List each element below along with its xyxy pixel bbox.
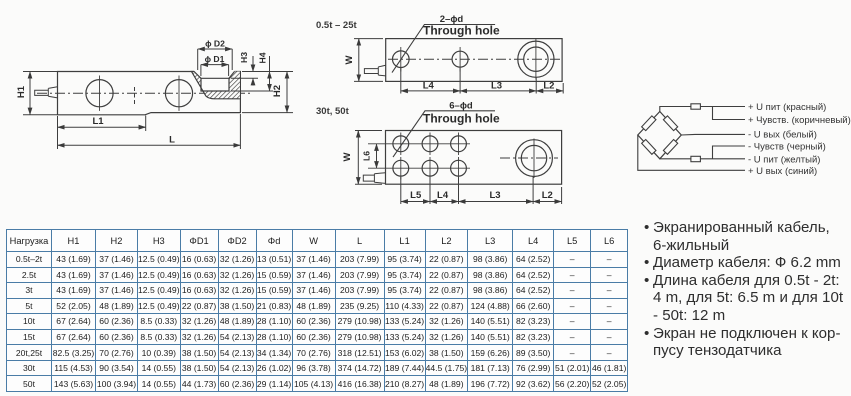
top view 2 leader: [393, 111, 495, 157]
svg-text:- Чувств (черный): - Чувств (черный): [748, 142, 826, 153]
side view hole 1: [86, 80, 113, 107]
svg-text:L4: L4: [437, 190, 449, 201]
wire +U pit: [660, 107, 745, 112]
resistor top: [691, 104, 701, 109]
svg-text:L4: L4: [423, 81, 435, 92]
dim H1: [23, 72, 57, 115]
wire +U vyh: [638, 135, 745, 170]
svg-text:+ Чувств. (коричневый): + Чувств. (коричневый): [748, 115, 851, 126]
counterbore cavity: [201, 78, 229, 91]
svg-text:L6: L6: [362, 151, 372, 161]
dim H2: [242, 72, 293, 113]
top view 2 holes row2: [393, 160, 409, 176]
svg-text:- U вых (белый): - U вых (белый): [748, 130, 817, 141]
side view hidden dash line: [134, 87, 136, 106]
svg-text:Through hole: Through hole: [423, 24, 500, 38]
svg-text:W: W: [344, 55, 355, 64]
wire -U vyh: [681, 133, 745, 136]
strain gauge R2 top-right: [663, 116, 677, 131]
dimensions table: [6, 229, 628, 392]
top view 1 dims L4 L3 L2: [401, 68, 563, 94]
counterbore hatch section: [192, 72, 240, 99]
svg-text:ϕ D2: ϕ D2: [205, 39, 225, 49]
top view 1 cable stub: [364, 65, 385, 76]
svg-text:H4: H4: [258, 52, 268, 63]
dim L1: [58, 116, 146, 132]
top view 2 dim L6: [376, 144, 378, 168]
svg-text:W: W: [342, 152, 353, 161]
top view 2 hole ticks: [368, 133, 470, 180]
strain gauge R4 bottom-right: [663, 140, 677, 155]
notes bullet list: [644, 219, 851, 360]
dim phiD2: [198, 49, 233, 70]
svg-text:0.5t – 25t: 0.5t – 25t: [316, 20, 357, 31]
wheatstone bridge diamond: [638, 112, 682, 159]
svg-text:H3: H3: [239, 52, 249, 63]
side view body outline: [58, 72, 241, 115]
top view 1 centerline: [388, 58, 560, 60]
svg-text:H2: H2: [272, 85, 283, 97]
side view hole 2: [165, 80, 192, 107]
top view 1 big hole: [518, 41, 554, 77]
svg-text:L2: L2: [543, 81, 554, 92]
svg-text:+ U вых (синий): + U вых (синий): [748, 166, 817, 177]
strain gauge R1 top-left: [642, 116, 656, 131]
svg-text:ϕ D1: ϕ D1: [205, 54, 225, 64]
svg-text:- U пит (желтый): - U пит (желтый): [748, 155, 820, 166]
svg-text:30t, 50t: 30t, 50t: [316, 106, 350, 117]
top view 1 body: [386, 39, 562, 82]
top view 2 centerline: [500, 157, 558, 159]
dim L: [58, 114, 241, 149]
wire +Chuvstv: [713, 107, 746, 120]
top view 2 dim W: [355, 131, 382, 185]
side view centerline: [37, 92, 252, 94]
resistor bottom: [691, 156, 701, 161]
dim phiD1: [201, 65, 229, 76]
top view 2 cable stub: [363, 173, 385, 184]
top view 1 hole B: [452, 51, 468, 67]
counterbore outline: [192, 72, 240, 99]
strain gauge R3 bottom-left: [642, 140, 656, 155]
svg-text:L3: L3: [489, 190, 500, 201]
top view 2 holes row1: [393, 136, 409, 152]
top view 2 big hole: [516, 140, 553, 177]
dim H3: [231, 56, 258, 86]
svg-text:L2: L2: [542, 190, 553, 201]
top view 2 dims L5 L4 L3 L2: [401, 176, 562, 204]
top view 1 leader: [392, 25, 495, 73]
top view 2 body: [386, 131, 562, 185]
svg-text:H1: H1: [16, 85, 27, 98]
top view 1 hole A: [393, 51, 410, 68]
svg-text:Through hole: Through hole: [423, 112, 500, 126]
svg-text:6–ϕd: 6–ϕd: [449, 101, 473, 112]
svg-text:+ U пит (красный): + U пит (красный): [748, 102, 826, 113]
svg-text:L5: L5: [410, 190, 422, 201]
side view cable stub: [35, 87, 58, 98]
top view 1 dim W: [354, 39, 383, 82]
svg-text:L: L: [169, 134, 175, 145]
dim H4: [231, 56, 273, 91]
svg-text:L3: L3: [491, 81, 502, 92]
wire -U pit: [660, 158, 745, 160]
svg-text:L1: L1: [92, 116, 104, 127]
wire -Chuvstv: [713, 146, 746, 159]
